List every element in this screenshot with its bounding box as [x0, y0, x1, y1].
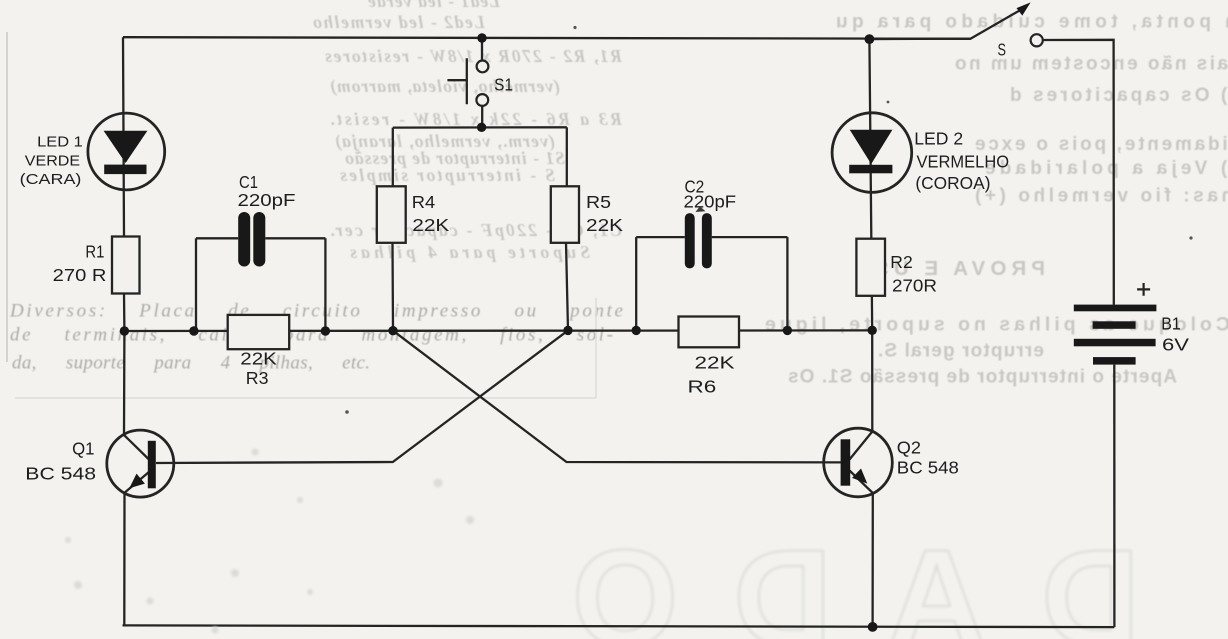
svg-text:R3: R3 [246, 368, 269, 388]
svg-text:da, suporte para 4 pilhas, etc: da, suporte para 4 pilhas, etc. [12, 353, 370, 374]
svg-text:Q1: Q1 [72, 439, 94, 459]
svg-text:erruptor geral S.: erruptor geral S. [878, 341, 1044, 362]
svg-text:22K: 22K [240, 348, 277, 368]
svg-text:Aperte o interruptor de pressã: Aperte o interruptor de pressão S1. Os [788, 367, 1177, 388]
svg-text:B1: B1 [1161, 313, 1181, 333]
svg-text:de terminais, caixa para monta: de terminais, caixa para montagem, fios,… [10, 325, 613, 346]
svg-text:6V: 6V [1162, 334, 1189, 354]
svg-text:VERDE: VERDE [25, 152, 80, 169]
svg-text:R5: R5 [586, 192, 611, 212]
svg-text:22K: 22K [412, 215, 449, 235]
svg-text:LED 1: LED 1 [37, 134, 83, 151]
svg-text:lhas: fio vermelho (+): lhas: fio vermelho (+) [975, 186, 1228, 207]
svg-text:S1: S1 [494, 74, 513, 94]
svg-text:Led2 - led vermelho: Led2 - led vermelho [313, 12, 486, 32]
svg-text:22K: 22K [695, 353, 735, 373]
svg-text:220pF: 220pF [684, 191, 737, 211]
svg-text:(vermelho, violeta, marrom): (vermelho, violeta, marrom) [330, 76, 560, 96]
svg-text:Q2: Q2 [897, 437, 921, 457]
svg-text:R4: R4 [412, 192, 436, 212]
svg-text:(COROA): (COROA) [915, 173, 990, 193]
svg-text:220pF: 220pF [238, 190, 296, 210]
svg-text:d) Os capacitores d: d) Os capacitores d [1010, 85, 1228, 106]
svg-text:C1: C1 [239, 172, 258, 192]
svg-text:R2: R2 [890, 252, 912, 272]
svg-text:LED 2: LED 2 [914, 129, 963, 149]
svg-text:S - interruptor simples: S - interruptor simples [340, 165, 555, 185]
svg-text:22K: 22K [586, 215, 623, 235]
svg-text:bidamente, pois o exce: bidamente, pois o exce [975, 134, 1228, 155]
svg-text:e) Veja a polaridade: e) Veja a polaridade [985, 158, 1228, 179]
svg-text:BC 548: BC 548 [897, 457, 959, 477]
svg-text:VERMELHO: VERMELHO [917, 152, 1010, 172]
svg-text:270 R: 270 R [53, 265, 107, 285]
svg-text:nais não encostem um no: nais não encostem um no [955, 54, 1228, 75]
svg-text:R6: R6 [688, 377, 717, 397]
svg-text:R3 a R6 - 22k x 1/8W - resist.: R3 a R6 - 22k x 1/8W - resist. [330, 109, 623, 129]
svg-text:(CARA): (CARA) [20, 171, 82, 188]
svg-text:DADO: DADO [517, 522, 1140, 639]
svg-text:S: S [998, 39, 1007, 59]
svg-text:R1, R2 - 270R x 1/8W - resisto: R1, R2 - 270R x 1/8W - resistores [325, 46, 623, 66]
svg-text:Led1 - led verde: Led1 - led verde [368, 0, 501, 11]
svg-text:R1: R1 [85, 242, 104, 262]
svg-text:Diversos: Placa de circuito im: Diversos: Placa de circuito impresso ou … [9, 301, 623, 322]
svg-text:270R: 270R [892, 276, 937, 296]
svg-text:m ponta, tome cuidado para qu: m ponta, tome cuidado para qu [836, 12, 1228, 33]
svg-text:Suporte para 4 pilhas: Suporte para 4 pilhas [350, 242, 590, 262]
svg-text:Coloque as pilhas no suporte,: Coloque as pilhas no suporte, ligue [765, 314, 1228, 336]
svg-text:BC 548: BC 548 [25, 464, 96, 484]
